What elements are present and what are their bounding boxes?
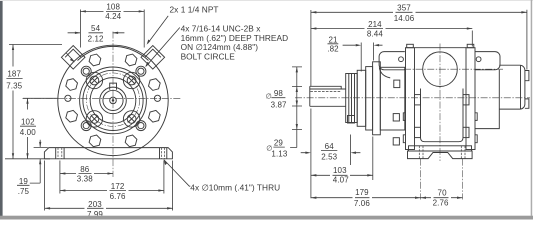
svg-text:19: 19 (19, 177, 29, 186)
window chrome left bar (0, 0, 3, 216)
svg-text:1.13: 1.13 (271, 149, 287, 158)
side valve vertical centerline (439, 44, 441, 162)
foot slot right dashed lines (162, 148, 165, 159)
bearing carrier (346, 74, 358, 123)
side foot lower plate with notch (408, 151, 473, 159)
svg-text:29: 29 (274, 139, 284, 148)
dim 86 lines (60, 161, 113, 194)
adapter section (380, 67, 405, 130)
rear plate outer tabs (475, 113, 477, 143)
cover circle inner (83, 70, 143, 130)
shaft (310, 86, 346, 106)
leader NPT (148, 16, 168, 43)
end cap seam (520, 65, 522, 109)
svg-text:3.38: 3.38 (77, 175, 93, 184)
svg-text:7.06: 7.06 (354, 199, 370, 208)
arrows 172 (60, 189, 164, 191)
front plate outer tabs (403, 113, 405, 143)
svg-text:108: 108 (106, 3, 120, 12)
cover ear bottom-right (123, 111, 139, 127)
svg-text:2.12: 2.12 (88, 34, 104, 43)
dim dia98 dia29 lines (290, 67, 302, 148)
port boss left hole (399, 57, 404, 62)
cover circle outer (80, 67, 147, 134)
svg-text:103: 103 (333, 166, 347, 175)
side shaft centerline (295, 97, 530, 99)
end cap tab upper (525, 71, 529, 81)
side foot hole hidden lines right (461, 146, 465, 159)
svg-text:4x ∅10mm (.41") THRU: 4x ∅10mm (.41") THRU (190, 182, 280, 192)
outer body circle (58, 45, 168, 155)
window chrome bottom bar (0, 216, 533, 220)
dim 70 179 hole centerline extensions (421, 159, 463, 200)
port boss left diamond (61, 46, 85, 70)
arrows 21 (356, 44, 379, 46)
relief valve circle (423, 52, 458, 87)
tie bolt boss lower-right (463, 127, 469, 137)
housing ring (357, 70, 366, 126)
svg-text:172: 172 (111, 182, 125, 191)
leader thru holes (164, 160, 191, 187)
dim 54 lines (68, 32, 125, 34)
port boss right diamond (141, 46, 165, 70)
arrows 86 (60, 172, 113, 174)
cover ear top-left (86, 72, 102, 88)
front plate (406, 48, 415, 150)
dim 203 lines (45, 161, 173, 211)
phillips screw bottom-right (127, 115, 136, 124)
side hole left (65, 95, 71, 101)
window chrome top edge (0, 0, 533, 1)
front plate top nut (407, 44, 414, 47)
gear chamber walls (421, 89, 464, 142)
side view: pump profile (295, 44, 530, 162)
hex bolt mid on adapter (393, 114, 399, 121)
tapped hole bottom-left (81, 121, 91, 131)
arrow thread note (145, 62, 149, 67)
leader thread note (146, 28, 180, 67)
svg-text:4.00: 4.00 (20, 128, 36, 137)
port boss right hole (476, 57, 481, 62)
svg-text:357: 357 (397, 4, 411, 13)
leader NPT left port arrow line (66, 53, 74, 61)
svg-text:21: 21 (328, 35, 338, 44)
svg-text:70: 70 (438, 188, 448, 197)
arrows 187 (12, 45, 14, 159)
svg-text:7.35: 7.35 (6, 81, 22, 90)
port boss left inner wall (65, 49, 81, 57)
svg-text:2.53: 2.53 (321, 153, 337, 162)
foot slot right solid lines (160, 148, 167, 159)
port boss right side (475, 52, 500, 70)
dim 103 lines (311, 137, 373, 181)
side valve horizontal centerline (404, 68, 503, 70)
arrows 357 (311, 11, 527, 13)
dim 108 lines (80, 10, 144, 48)
tapped hole top-right (136, 66, 146, 76)
drain plug under bearing housing (348, 116, 355, 124)
dim 19 lines (17, 140, 48, 186)
dim 21 lines (328, 43, 383, 72)
dim 172 lines (60, 161, 164, 194)
arrows dia98 (296, 67, 298, 130)
svg-text:4.07: 4.07 (333, 175, 349, 184)
side foot upper (409, 146, 472, 151)
keyway notch (110, 83, 117, 90)
end cap (499, 65, 525, 109)
screw bolt circle dash-dot (86, 73, 139, 126)
svg-text:86: 86 (80, 165, 90, 174)
svg-text:BOLT CIRCLE: BOLT CIRCLE (181, 52, 236, 62)
svg-text:∅: ∅ (266, 144, 272, 153)
bearing carrier ribs (349, 74, 355, 123)
top double-wall arc (78, 46, 149, 60)
svg-text:6.76: 6.76 (110, 192, 126, 201)
port boss right inner wall (145, 49, 161, 57)
arrows 64 (305, 152, 356, 154)
hub circle (100, 87, 127, 114)
shaft circle (103, 90, 123, 110)
dim 357 lines (311, 10, 527, 199)
tie bolt boss lower-left (415, 127, 421, 137)
tapped hole bottom-right (136, 121, 146, 131)
side hole right (154, 95, 160, 101)
hex bolt upper on adapter (394, 80, 400, 88)
arrow NPT right port (147, 39, 151, 44)
fraction bars (6, 79, 285, 148)
phillips screw top-right (127, 76, 136, 85)
rear plate top nut (467, 44, 474, 47)
svg-text:102: 102 (21, 117, 35, 126)
arrows 102 (26, 98, 28, 159)
svg-text:.75: .75 (18, 187, 30, 196)
hex bolt lower on flange (393, 138, 399, 145)
svg-text:214: 214 (368, 20, 382, 29)
front horizontal centerline (23, 97, 182, 99)
cover ear bottom-left (86, 111, 102, 127)
phillips screw top-left (90, 76, 99, 85)
arrows 203 (45, 207, 173, 209)
arrows 214 (311, 27, 472, 29)
shaft key (310, 86, 341, 89)
arrow NPT left port (70, 58, 75, 62)
dim 64 lines (301, 135, 361, 166)
center hole (110, 97, 117, 104)
svg-text:2.76: 2.76 (433, 199, 449, 208)
boss fillet curve (379, 68, 390, 78)
svg-text:2x 1 1/4 NPT: 2x 1 1/4 NPT (170, 5, 219, 15)
arrows 70 (421, 197, 463, 199)
phillips screw bottom-left (90, 115, 99, 124)
center mark dot (112, 99, 115, 102)
dim 70 lines (421, 197, 463, 199)
mounting flange (373, 62, 381, 135)
port boss left side (379, 52, 405, 70)
end cap tab lower (525, 99, 529, 108)
svg-text:98: 98 (274, 89, 284, 98)
foot slot left dashed lines (58, 148, 62, 159)
shaft keyway hidden line (310, 91, 341, 93)
foot slot left solid lines (56, 148, 64, 159)
dim 102 lines (23, 98, 58, 159)
front view: gear pump face (23, 32, 182, 178)
hex bolts around flange (66, 54, 160, 147)
svg-text:8.44: 8.44 (367, 30, 383, 39)
svg-text:203: 203 (88, 200, 102, 209)
arrow thru holes (164, 160, 167, 166)
svg-text:54: 54 (91, 24, 101, 33)
dim 187 lines (5, 45, 62, 159)
tie bolt boss upper-left (415, 95, 421, 105)
tapped hole top-left (81, 66, 91, 76)
dim 214 lines (311, 29, 472, 47)
seal ring circle (90, 78, 136, 124)
gear housing top edge (415, 47, 467, 49)
cover ear top-right (123, 72, 139, 88)
rear housing lower (475, 70, 499, 129)
arrows 179 (311, 197, 421, 199)
rear plate (466, 48, 475, 150)
front vertical centerline (112, 32, 114, 178)
svg-text:64: 64 (325, 142, 335, 151)
svg-text:4.24: 4.24 (105, 12, 121, 21)
svg-text:∅: ∅ (266, 92, 272, 101)
svg-text:.82: .82 (327, 45, 339, 54)
arrows 19 (39, 142, 41, 164)
arrows 54 (75, 32, 118, 34)
side foot hole hidden lines left (419, 146, 423, 159)
tie bolt boss upper-right (463, 95, 469, 105)
arrows dia29 (296, 87, 298, 107)
svg-text:14.06: 14.06 (394, 14, 415, 23)
arrows 108 (80, 10, 144, 12)
dim 179 lines (311, 197, 421, 199)
pilot ring (366, 67, 373, 130)
svg-text:3.87: 3.87 (271, 100, 287, 109)
svg-text:187: 187 (7, 69, 21, 78)
window chrome right edge (531, 0, 533, 216)
arrows 103 (311, 174, 373, 176)
foot plate outline (44, 148, 172, 159)
svg-text:179: 179 (355, 188, 369, 197)
